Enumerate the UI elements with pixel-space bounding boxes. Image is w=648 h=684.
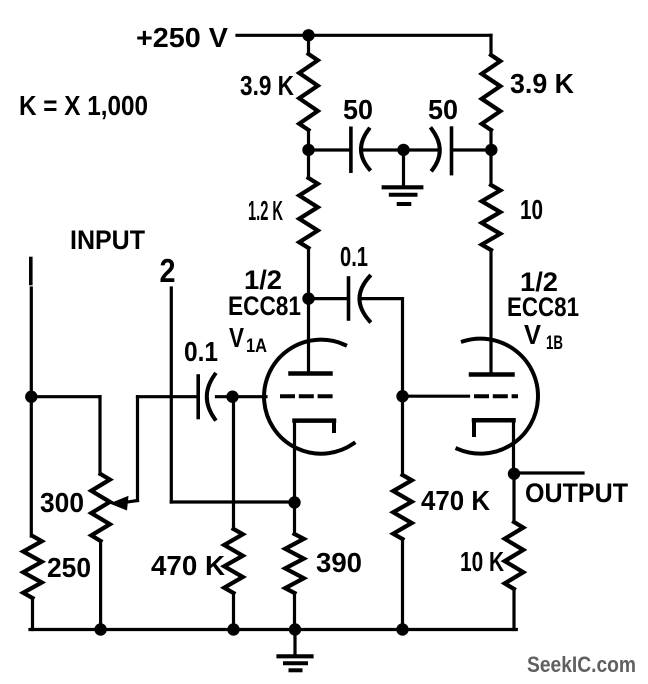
svg-text:OUTPUT: OUTPUT <box>525 478 628 508</box>
svg-text:250: 250 <box>47 552 91 583</box>
svg-text:390: 390 <box>316 547 362 578</box>
svg-text:1B: 1B <box>546 333 563 354</box>
svg-text:V: V <box>229 322 244 353</box>
svg-text:0.1: 0.1 <box>340 241 368 272</box>
svg-text:INPUT: INPUT <box>70 225 145 255</box>
svg-text:K = X 1,000: K = X 1,000 <box>19 90 148 121</box>
svg-text:V: V <box>524 319 541 350</box>
svg-text:1.2 K: 1.2 K <box>248 195 283 226</box>
svg-text:+250 V: +250 V <box>136 22 228 53</box>
svg-text:SeekIC.com: SeekIC.com <box>527 652 636 677</box>
svg-text:ECC81: ECC81 <box>507 292 579 322</box>
svg-text:10: 10 <box>520 194 543 225</box>
svg-text:470 K: 470 K <box>421 485 490 516</box>
svg-text:50: 50 <box>428 94 458 125</box>
svg-text:2: 2 <box>160 252 176 289</box>
svg-text:0.1: 0.1 <box>184 336 218 367</box>
svg-text:470 K: 470 K <box>151 550 225 581</box>
svg-text:ECC81: ECC81 <box>228 291 301 321</box>
svg-text:1A: 1A <box>246 336 267 357</box>
svg-text:10 K: 10 K <box>460 546 504 577</box>
svg-text:3.9 K: 3.9 K <box>240 70 294 101</box>
svg-text:300: 300 <box>40 487 84 518</box>
svg-text:3.9 K: 3.9 K <box>510 68 574 99</box>
svg-text:50: 50 <box>343 94 373 125</box>
